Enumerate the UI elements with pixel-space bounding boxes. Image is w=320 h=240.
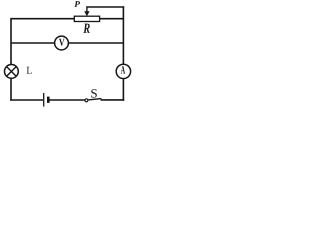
battery short thick plate — [47, 97, 50, 103]
switch S lever — [88, 99, 101, 100]
wire rheostat wiper shaft — [86, 6, 88, 12]
wire left vertical lower — [10, 78, 12, 101]
wire rheostat wiper horizontal — [87, 6, 124, 8]
wire rheostat right end to right wire — [100, 18, 124, 20]
label P — [74, 1, 80, 7]
lamp X cross stroke 1 — [7, 67, 17, 77]
label R — [83, 24, 89, 33]
lamp L circle — [4, 65, 18, 79]
wire top-left horizontal — [11, 18, 74, 20]
label S — [91, 89, 97, 98]
wire voltmeter right — [68, 42, 123, 44]
rheostat wiper arrowhead — [84, 11, 89, 16]
lamp X cross stroke 2 — [7, 67, 17, 77]
rheostat R body — [74, 16, 99, 21]
wire voltmeter left — [11, 42, 55, 44]
ammeter circle — [116, 64, 130, 78]
wire right vertical upper — [122, 6, 124, 64]
voltmeter U=V circle — [55, 36, 69, 50]
switch S pivot circle — [85, 99, 88, 102]
label L — [27, 67, 32, 74]
wire switch to bottom-right corner — [101, 99, 125, 101]
wire battery to switch — [49, 99, 85, 101]
voltmeter letter V — [59, 39, 65, 46]
battery long plate — [43, 93, 45, 107]
wire bottom-left to battery — [10, 99, 43, 101]
ammeter letter A — [121, 66, 125, 74]
wire right vertical lower — [122, 79, 124, 101]
wire left vertical upper — [10, 18, 12, 65]
